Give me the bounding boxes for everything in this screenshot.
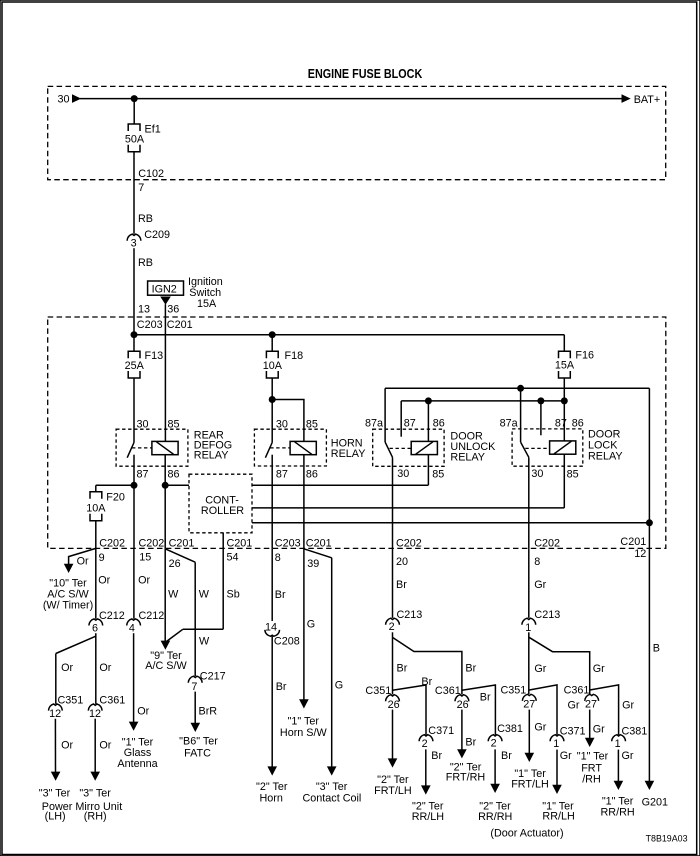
svg-text:F13: F13	[145, 350, 164, 362]
actuation link U3	[390, 447, 412, 449]
svg-text:"B6" Ter: "B6" Ter	[179, 735, 218, 747]
svg-text:13: 13	[138, 303, 150, 315]
wire C213-2 split	[392, 632, 394, 694]
svg-text:Horn: Horn	[259, 793, 282, 805]
arrowhead power mirror LH	[51, 772, 61, 781]
svg-text:RELAY: RELAY	[588, 450, 623, 462]
arrowhead 1 RR/RH	[614, 781, 624, 790]
wire C202-9 branch to A/C switch	[69, 548, 96, 565]
svg-text:Gr: Gr	[534, 663, 546, 675]
svg-text:C202: C202	[396, 537, 422, 549]
fuse F18 body bottom	[266, 371, 278, 378]
svg-text:C202: C202	[534, 537, 560, 549]
wire lock 86	[563, 401, 565, 441]
svg-text:Or: Or	[61, 662, 73, 674]
wire F13 to defog relay pin 30	[133, 378, 135, 443]
wire Ef1 to C209	[133, 152, 135, 234]
coil box U4	[550, 441, 576, 454]
wire unlock coil 85 to controller	[252, 484, 428, 486]
svg-text:C381: C381	[497, 723, 523, 735]
svg-text:10A: 10A	[86, 502, 106, 514]
svg-text:2: 2	[422, 738, 428, 750]
svg-text:C203: C203	[275, 537, 301, 549]
svg-text:Br: Br	[421, 676, 432, 688]
svg-text:Or: Or	[98, 575, 110, 587]
connector C212 arc symbol	[127, 619, 141, 626]
connector C351 pin 12	[49, 694, 84, 720]
terminal 2 RR/RH label	[478, 801, 512, 823]
terminal 1 horn switch label	[280, 716, 328, 740]
svg-text:"1" Ter: "1" Ter	[577, 751, 609, 763]
svg-text:C102: C102	[138, 168, 164, 180]
svg-text:A/C S/W: A/C S/W	[47, 589, 89, 601]
coil diagonal U2	[295, 442, 312, 455]
svg-text:30: 30	[137, 418, 149, 430]
actuation link U2	[270, 447, 290, 449]
connector C209 arc symbol	[127, 234, 141, 241]
svg-text:12: 12	[49, 708, 61, 720]
coil diagonal U1	[156, 442, 173, 455]
wire branch 26 to FATC column	[165, 549, 195, 562]
connector C351 arc symbol	[522, 694, 536, 701]
connector C361 pin 12	[88, 694, 125, 720]
svg-text:15A: 15A	[555, 360, 575, 372]
wire lock 87 stub	[540, 401, 542, 435]
svg-text:85: 85	[432, 468, 444, 480]
fuse Ef1 body top	[128, 124, 140, 131]
svg-text:W: W	[199, 635, 210, 647]
svg-text:Or: Or	[137, 705, 149, 717]
wire C201-39 to horn switch	[303, 548, 305, 701]
svg-text:87: 87	[137, 468, 149, 480]
svg-text:Gr: Gr	[593, 663, 605, 675]
terminal 9 A/C switch label	[145, 650, 187, 672]
svg-text:54: 54	[227, 551, 239, 563]
svg-text:30: 30	[58, 94, 70, 106]
svg-text:G: G	[307, 618, 315, 630]
wire C361 to power mirror RH	[94, 719, 96, 774]
arrowhead 1 RR/LH	[552, 785, 562, 794]
relay U4 DOOR LOCK RELAY	[500, 418, 623, 549]
svg-text:"2" Ter: "2" Ter	[256, 781, 288, 793]
svg-text:"3" Ter: "3" Ter	[39, 788, 71, 800]
svg-text:C371: C371	[428, 725, 454, 737]
svg-text:Or: Or	[99, 740, 111, 752]
arrowhead horn switch	[299, 699, 309, 708]
connector C371 arc symbol	[419, 735, 433, 742]
arrowhead 2 FRT/RH	[457, 749, 467, 758]
terminal 2 horn label	[256, 781, 288, 805]
fuse Ef1 body bottom	[128, 145, 140, 152]
svg-text:Gr: Gr	[622, 750, 634, 762]
wire F18 to horn relay	[271, 378, 273, 443]
svg-text:C208: C208	[274, 636, 300, 648]
svg-text:C213: C213	[534, 609, 560, 621]
svg-text:RR/LH: RR/LH	[542, 811, 574, 823]
svg-text:39: 39	[307, 558, 319, 570]
svg-text:Antenna: Antenna	[117, 758, 157, 770]
connector C361 arc symbol	[455, 695, 469, 702]
connector C381 pin 2	[488, 723, 523, 750]
svg-text:BrR: BrR	[199, 705, 218, 717]
svg-text:RR/RH: RR/RH	[478, 811, 512, 823]
svg-text:C361: C361	[99, 694, 125, 706]
svg-text:IGN2: IGN2	[152, 284, 177, 296]
terminal 1 FRT/LH label	[511, 768, 549, 791]
main fuse block lower dashed box	[48, 317, 666, 548]
junction dot lock 87	[537, 397, 544, 404]
svg-text:85: 85	[567, 468, 579, 480]
wire controller to ground net	[252, 522, 649, 524]
wire IGN2 to defog relay coil	[164, 304, 166, 441]
svg-text:Br: Br	[396, 579, 407, 591]
fuse F18 body top	[266, 351, 278, 358]
connector C371 pin 2	[419, 725, 454, 750]
fuse F16 body bottom	[559, 371, 571, 378]
svg-text:T8B19A03: T8B19A03	[646, 834, 688, 844]
wire to fuse Ef1	[133, 99, 135, 124]
fuse F20 body bottom	[90, 514, 102, 521]
wire 87a to unlock relay	[384, 388, 386, 442]
connector C381 arc symbol	[612, 735, 626, 742]
actuation link U4	[525, 447, 549, 449]
fuse Ef1 50A	[125, 123, 161, 152]
wire bus to F16	[563, 335, 565, 352]
wire to contact coil	[331, 558, 333, 769]
wire F20 to C202 9	[95, 521, 97, 549]
svg-text:87a: 87a	[365, 418, 383, 430]
IGN2 box outline	[148, 281, 184, 295]
wire branch C361 to C381	[590, 685, 619, 735]
svg-text:C371: C371	[560, 725, 586, 737]
wire branch C351 to C371	[529, 685, 557, 735]
svg-text:2: 2	[491, 738, 497, 750]
wire defog 87 branch to F20	[96, 484, 134, 486]
wire pin 85 inside U4	[563, 454, 565, 508]
svg-text:85: 85	[306, 418, 318, 430]
connector C351 pin 27	[501, 684, 537, 710]
relay U1 REAR DEFOG RELAY	[116, 418, 232, 485]
wire controller54 node horizontal	[183, 628, 223, 630]
svg-text:10A: 10A	[263, 360, 283, 372]
coil box U3	[411, 441, 437, 454]
svg-text:C201: C201	[620, 536, 646, 548]
coil box U2	[290, 441, 316, 454]
fuse F20 10A	[86, 491, 125, 521]
svg-text:87: 87	[404, 418, 416, 430]
svg-text:FATC: FATC	[184, 748, 211, 760]
svg-text:30: 30	[276, 418, 288, 430]
svg-text:30: 30	[531, 468, 543, 480]
wire C209 to bus	[133, 248, 135, 335]
connector C351 arc symbol	[386, 695, 400, 702]
svg-text:15A: 15A	[197, 298, 217, 310]
relay U1 body outline	[116, 429, 188, 466]
svg-text:Gr: Gr	[534, 722, 546, 734]
terminal 1 glass antenna label	[117, 736, 157, 770]
svg-text:Gr: Gr	[593, 723, 605, 735]
wire angle into A/C 9 arrow	[166, 629, 182, 641]
svg-text:A/C S/W: A/C S/W	[145, 660, 187, 672]
controller U5 body outline	[189, 474, 252, 533]
svg-text:Br: Br	[465, 663, 476, 675]
connector C212 pin 4	[127, 610, 165, 635]
terminal 10 A/C switch label	[43, 577, 93, 611]
svg-text:C381: C381	[622, 725, 648, 737]
wire C351-27 to FRT/LH	[528, 710, 530, 755]
wire to C351 12	[55, 654, 57, 704]
arrowhead BAT+	[622, 94, 631, 103]
engine fuse block dashed box	[48, 86, 666, 179]
connector C361 pin 26	[435, 685, 469, 711]
wire C371-1 to RR/LH	[556, 750, 558, 787]
svg-text:86: 86	[168, 468, 180, 480]
wire FATC column	[194, 562, 196, 676]
svg-text:9: 9	[99, 552, 105, 564]
switch blade U1	[127, 443, 134, 458]
svg-text:FRT/LH: FRT/LH	[511, 779, 549, 791]
svg-text:W: W	[168, 589, 179, 601]
svg-text:Gr: Gr	[568, 700, 580, 712]
wire C212-6 split	[95, 633, 97, 704]
wire C351-26 to FRT/LH	[392, 710, 394, 761]
svg-text:G: G	[335, 680, 343, 692]
wire to fuse F20	[95, 485, 97, 492]
wire C202-8 down	[528, 548, 530, 618]
ignition switch IGN2 box	[148, 281, 184, 296]
svg-text:C201: C201	[306, 537, 332, 549]
connector C212 pin 6	[89, 610, 125, 635]
svg-text:RR/LH: RR/LH	[412, 811, 444, 823]
svg-text:RELAY: RELAY	[194, 449, 229, 461]
wire pin 86 to C201	[303, 455, 305, 549]
arrowhead horn	[267, 766, 277, 775]
svg-text:Contact Coil: Contact Coil	[302, 793, 361, 805]
svg-text:7: 7	[138, 182, 144, 194]
svg-text:F18: F18	[285, 350, 304, 362]
wire C203-8 to C208	[271, 548, 273, 621]
wire C202-9 to C212-6	[95, 548, 97, 618]
svg-text:"1" Ter: "1" Ter	[288, 716, 320, 728]
svg-text:Br: Br	[501, 750, 512, 762]
svg-text:8: 8	[275, 552, 281, 564]
svg-text:Br: Br	[275, 589, 286, 601]
arrowhead 2 RR/RH	[490, 784, 500, 793]
svg-text:"10" Ter: "10" Ter	[49, 577, 87, 589]
svg-text:Br: Br	[480, 691, 491, 703]
terminal 1 RR/LH label	[542, 801, 575, 823]
terminal 2 RR/LH label	[412, 801, 444, 823]
svg-text:ROLLER: ROLLER	[201, 505, 244, 517]
arrowhead 1 FRT/RH	[585, 738, 595, 747]
svg-text:15: 15	[139, 551, 151, 563]
connector C351 arc symbol	[49, 704, 63, 711]
wire bus to F18	[271, 335, 273, 352]
connector C361 arc symbol	[585, 694, 599, 701]
svg-text:7: 7	[191, 681, 197, 693]
svg-text:C201: C201	[167, 319, 193, 331]
svg-text:25A: 25A	[125, 360, 145, 372]
wire 87/86 net	[401, 400, 564, 402]
wire pin 85 inside U3	[427, 455, 429, 486]
relay U3 DOOR UNLOCK RELAY	[365, 418, 496, 549]
svg-text:C203: C203	[137, 319, 163, 331]
svg-text:20: 20	[396, 556, 408, 568]
connector C213 pin 2	[386, 609, 423, 633]
connector C371 arc symbol	[550, 735, 564, 742]
junction dot controller ground	[646, 519, 653, 526]
wire 87a net to ground side	[648, 388, 650, 523]
coil box U1	[152, 441, 178, 454]
fuse F13 25A	[125, 350, 164, 378]
svg-text:(W/ Timer): (W/ Timer)	[43, 600, 93, 612]
svg-text:Br: Br	[397, 663, 408, 675]
connector C213 pin 1	[522, 609, 560, 634]
connector C361 arc symbol	[88, 704, 102, 711]
svg-text:86: 86	[433, 418, 445, 430]
connector C213 arc symbol	[386, 618, 400, 625]
svg-text:14: 14	[265, 622, 277, 634]
fuse F13 body bottom	[128, 371, 140, 378]
svg-text:1: 1	[615, 738, 621, 750]
svg-text:Ef1: Ef1	[145, 123, 161, 135]
svg-text:Sb: Sb	[227, 589, 240, 601]
terminal 1 RR/RH label	[600, 796, 634, 819]
connector C208 arc symbol	[265, 630, 280, 636]
junction dot bus F13	[131, 331, 138, 338]
switch blade U2	[265, 443, 272, 458]
svg-text:RB: RB	[138, 257, 153, 269]
connector C371 pin 1	[550, 725, 585, 750]
svg-text:Horn S/W: Horn S/W	[280, 727, 328, 739]
fuse F16 body top	[559, 351, 571, 358]
svg-text:30: 30	[397, 468, 409, 480]
terminal 2 FRT/LH label	[374, 774, 412, 797]
svg-text:"3" Ter: "3" Ter	[316, 781, 348, 793]
connector C209 pin 3	[127, 229, 170, 249]
actuation link U1	[132, 447, 152, 449]
coil diagonal U3	[416, 442, 433, 454]
wire 30 to BAT+ arrow left	[72, 94, 81, 103]
connector C212 arc symbol	[89, 619, 103, 626]
svg-text:27: 27	[523, 699, 535, 711]
connector C217 arc symbol	[188, 676, 202, 683]
arrowhead FATC	[191, 723, 201, 732]
junction dot unlock 86	[425, 397, 432, 404]
wire branch C361 to C381	[462, 685, 496, 735]
relay U2 body outline	[254, 429, 326, 466]
relay U2 HORN RELAY	[254, 418, 365, 548]
arrowhead contact coil	[327, 766, 337, 775]
wire C351 to power mirror LH	[54, 719, 56, 774]
svg-text:12: 12	[89, 708, 101, 720]
svg-text:87a: 87a	[500, 418, 518, 430]
junction dot lock 86 feed	[561, 397, 568, 404]
svg-text:36: 36	[167, 303, 179, 315]
svg-text:26: 26	[388, 699, 400, 711]
svg-text:85: 85	[168, 418, 180, 430]
wire C381-1 to RR/RH	[617, 750, 619, 783]
svg-text:FRT/LH: FRT/LH	[374, 785, 412, 797]
wire controller to defog 86 node	[165, 484, 189, 486]
svg-text:F16: F16	[575, 350, 594, 362]
svg-text:Or: Or	[138, 575, 150, 587]
wire C361-27 to FRT/RH	[589, 710, 591, 740]
svg-text:C202: C202	[139, 537, 165, 549]
arrowhead 2 RR/LH	[421, 785, 431, 794]
wire bus to F13	[133, 335, 135, 352]
wire C201-26 down	[164, 548, 166, 642]
terminal 2 FRT/RH label	[446, 761, 485, 783]
svg-text:C212: C212	[139, 610, 165, 622]
svg-text:C213: C213	[397, 609, 423, 621]
svg-text:50A: 50A	[125, 133, 145, 145]
svg-text:Br: Br	[465, 736, 476, 748]
svg-text:RR/RH: RR/RH	[600, 806, 634, 818]
switch blade U3	[385, 442, 392, 457]
svg-text:ENGINE FUSE BLOCK: ENGINE FUSE BLOCK	[308, 66, 423, 81]
wire branch C351 to C371	[393, 685, 427, 735]
wire C213-1 split	[528, 632, 530, 694]
wire C217 to FATC	[194, 692, 196, 725]
arrowhead 2 FRT/LH	[388, 758, 398, 767]
svg-text:(LH): (LH)	[45, 811, 66, 823]
arrowhead G201	[645, 781, 655, 790]
connector C381 pin 1	[612, 725, 648, 750]
terminal 1 FRT/RH label	[577, 751, 609, 786]
junction dot at Ef1 tap	[131, 95, 138, 102]
wire C371-2 to RR/LH	[425, 749, 427, 787]
arrowhead to A/C switch 10	[64, 564, 74, 573]
wire C208 to horn	[271, 636, 273, 768]
svg-text:RELAY: RELAY	[450, 451, 485, 463]
wire C361-26 to FRT/RH	[461, 710, 463, 751]
wire pin 87 inside U1	[133, 455, 135, 486]
svg-text:C212: C212	[99, 610, 125, 622]
svg-text:B: B	[653, 643, 660, 655]
fuse F16 15A	[555, 350, 594, 378]
svg-text:C361: C361	[564, 684, 590, 696]
junction dot horn branch	[269, 396, 276, 403]
wire branch to C361 26	[393, 637, 462, 694]
terminal 3 power mirror labels	[39, 788, 122, 823]
svg-text:86: 86	[572, 418, 584, 430]
svg-text:FRT/RH: FRT/RH	[446, 772, 485, 784]
wire 87a to lock relay	[520, 388, 522, 442]
svg-text:C361: C361	[435, 685, 461, 697]
wire branch to C351	[56, 636, 96, 653]
svg-text:27: 27	[585, 699, 597, 711]
controller U5	[189, 474, 252, 533]
wire pin 30 to C202	[392, 457, 394, 548]
svg-text:Br: Br	[276, 681, 287, 693]
coil diagonal U4	[554, 441, 571, 454]
wire unlock 87 stub	[400, 401, 402, 437]
wire branch to C361 27	[529, 637, 590, 694]
svg-text:87: 87	[555, 418, 567, 430]
svg-text:/RH: /RH	[582, 773, 601, 785]
wire pin 30 to C202	[528, 457, 530, 548]
svg-text:C351: C351	[501, 684, 527, 696]
connector C217 pin 7	[188, 670, 225, 693]
wire branch to horn coil	[272, 400, 304, 442]
junction dot defog 86	[162, 482, 169, 489]
svg-text:26: 26	[169, 558, 181, 570]
svg-text:C351: C351	[58, 694, 84, 706]
svg-text:C209: C209	[144, 229, 170, 241]
wire C202-20 down	[392, 548, 394, 618]
IGN2 output arrow	[160, 297, 171, 305]
